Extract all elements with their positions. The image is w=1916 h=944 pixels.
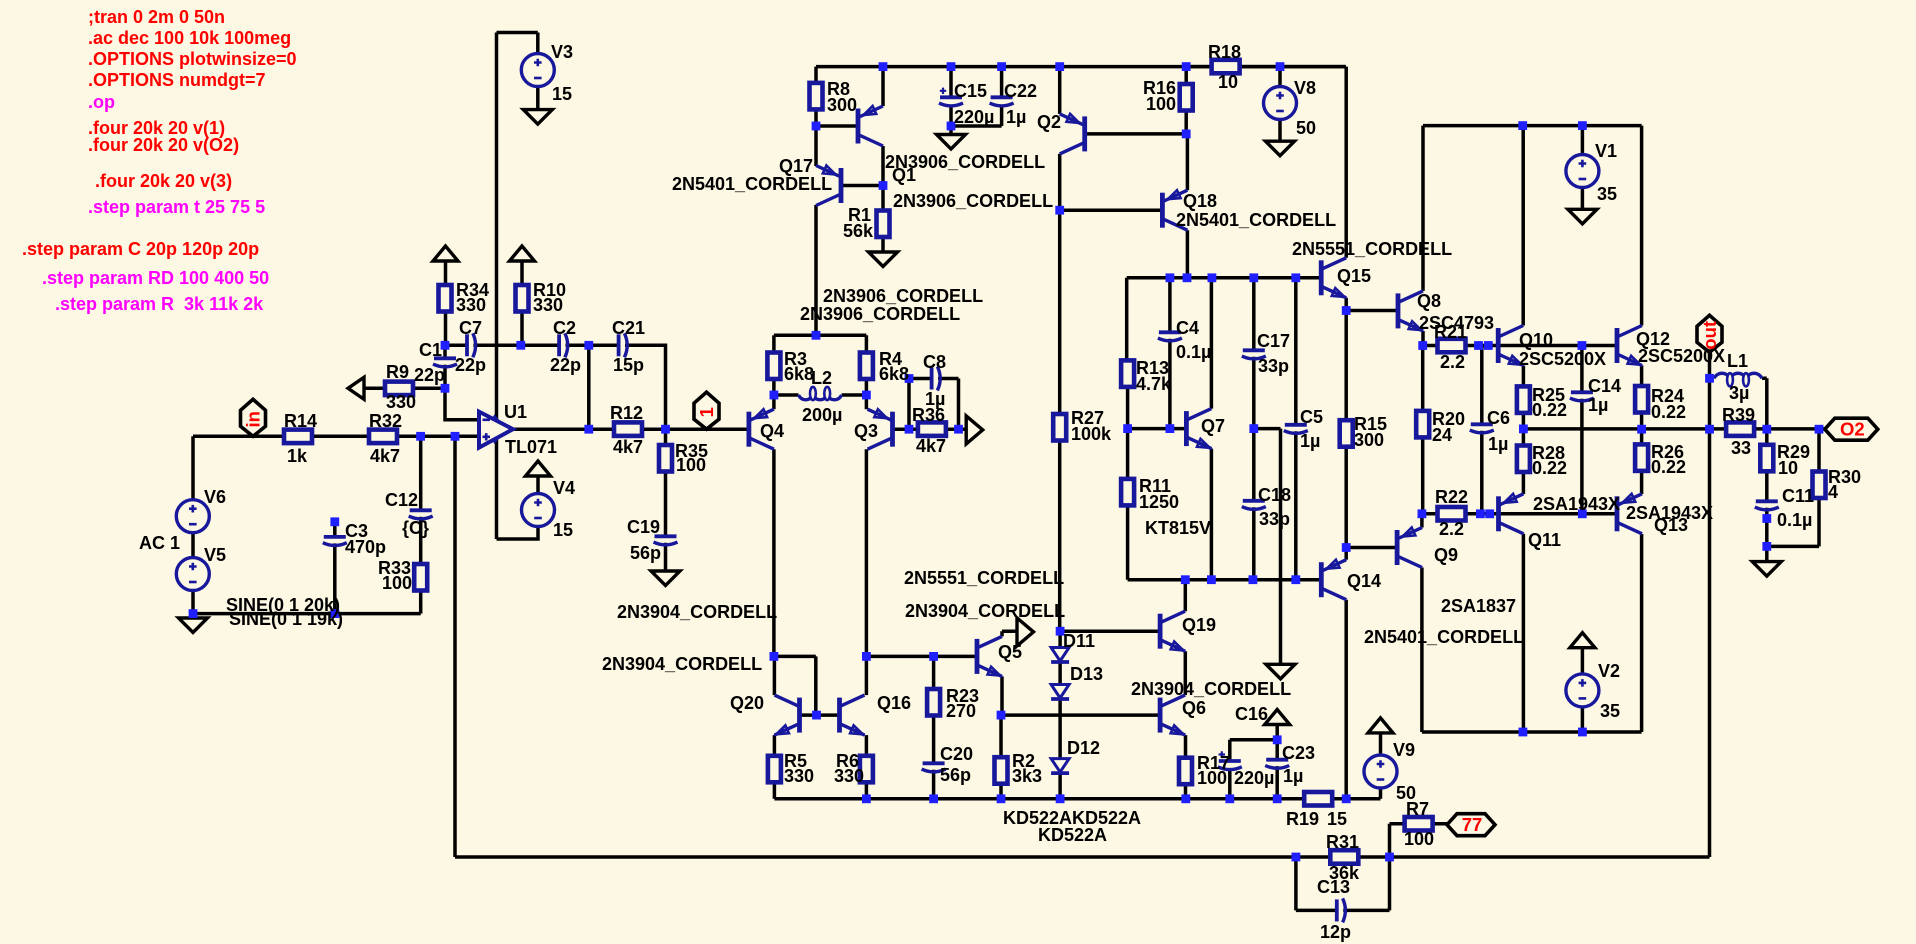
svg-text:2N3904_CORDELL: 2N3904_CORDELL [602, 654, 762, 674]
svg-text:330: 330 [533, 295, 563, 315]
wire Q20 emit [773, 735, 777, 756]
wire output rail [1523, 427, 1824, 431]
svg-text:R32: R32 [369, 411, 402, 431]
svg-text:33p: 33p [1258, 356, 1289, 376]
svg-text:100: 100 [382, 573, 412, 593]
svg-text:300: 300 [827, 95, 857, 115]
wire R36 leads [909, 427, 966, 431]
svg-text:R21: R21 [1434, 322, 1467, 342]
wire C14 bottom [1580, 399, 1584, 514]
wire R20 bottom [1421, 437, 1425, 513]
wire C1 bottom [443, 365, 447, 389]
wire R6 bottom [865, 782, 869, 799]
transistor Q11 [1499, 494, 1524, 534]
wire Q1 emitter up [881, 67, 885, 106]
svg-text:C14: C14 [1588, 376, 1621, 396]
resistor R17 [1179, 758, 1192, 785]
svg-text:22p: 22p [414, 365, 445, 385]
wire R7 row [1390, 822, 1448, 826]
svg-text:Q19: Q19 [1182, 615, 1216, 635]
svg-text:C20: C20 [940, 744, 973, 764]
svg-text:Q2: Q2 [1037, 112, 1061, 132]
svg-text:D11: D11 [1063, 631, 1095, 651]
svg-text:C11: C11 [1782, 486, 1814, 506]
transistor Q16 [840, 695, 865, 735]
svg-text:Q7: Q7 [1201, 416, 1225, 436]
svg-text:Q5: Q5 [998, 642, 1022, 662]
wire V6-V5 [191, 533, 195, 558]
ground C19 [651, 571, 680, 586]
svg-text:V4: V4 [553, 478, 575, 498]
resistor R11 [1121, 479, 1134, 506]
resistor R13 [1121, 360, 1134, 387]
resistor R30 [1813, 472, 1826, 499]
svg-text:15: 15 [553, 520, 573, 540]
resistor R33 [414, 564, 427, 591]
svg-text:3k3: 3k3 [1012, 766, 1042, 786]
wire Q19 coll [1184, 580, 1188, 612]
resistor R25 [1517, 386, 1530, 413]
wire tail row [774, 334, 867, 338]
svg-text:4.7k: 4.7k [1136, 374, 1172, 394]
wire L1 right [1762, 378, 1767, 429]
wire C22 bottom [1000, 106, 1004, 126]
wire Q8 coll [1421, 126, 1425, 291]
wire V6 top [191, 436, 195, 499]
wire D12 bottom [1058, 774, 1062, 799]
capacitor C15 [940, 95, 962, 99]
wire Q10 emit [1522, 366, 1526, 387]
svg-text:KT815V: KT815V [1145, 518, 1211, 538]
wire Q5-Q6 base [1001, 713, 1160, 717]
svg-text:6k8: 6k8 [879, 364, 909, 384]
resistor R6 [860, 756, 873, 783]
wire D11 top [1058, 631, 1062, 647]
svg-text:Q16: Q16 [877, 693, 911, 713]
svg-text:470p: 470p [345, 537, 386, 557]
svg-text:in: in [243, 411, 264, 427]
ground V8 [1266, 141, 1295, 156]
wire C3 bottom [333, 543, 337, 613]
capacitor C22 [991, 95, 1013, 99]
svg-text:50: 50 [1296, 118, 1316, 138]
svg-text:56k: 56k [843, 221, 874, 241]
wire R5 bottom [773, 782, 777, 799]
wire Q16 emit [865, 735, 869, 756]
wire C6 top [1480, 346, 1484, 425]
ground R1 [869, 252, 898, 267]
svg-text:R19: R19 [1286, 809, 1319, 829]
svg-text:22p: 22p [550, 355, 581, 375]
wire C2 node down [587, 345, 591, 429]
wire C22 top [1000, 67, 1004, 98]
svg-text:15: 15 [552, 84, 572, 104]
svg-text:TL071: TL071 [505, 437, 557, 457]
wire vas bus [1127, 276, 1322, 280]
svg-text:2N5551_CORDELL: 2N5551_CORDELL [904, 568, 1064, 588]
wire Q2 coll [1058, 154, 1062, 414]
wire C15 top [949, 67, 953, 98]
svg-text:1k: 1k [287, 446, 308, 466]
resistor R14 [284, 430, 312, 444]
resistor R15 [1340, 420, 1353, 447]
wire R7 down [1388, 824, 1392, 857]
transistor Q6 [1160, 695, 1185, 735]
wire Q17 emitter up [814, 126, 818, 166]
svg-text:0.22: 0.22 [1651, 457, 1686, 477]
wire C7-R10 [473, 344, 559, 348]
wire V9 top [1379, 733, 1383, 755]
svg-text:R9: R9 [386, 362, 409, 382]
wire gnd row [193, 612, 421, 616]
resistor R22 [1438, 507, 1466, 521]
wire R23 top [932, 656, 936, 689]
svg-text:6k8: 6k8 [784, 364, 814, 384]
wire C21 right [625, 345, 666, 429]
svg-text:C19: C19 [627, 517, 660, 537]
resistor R10 [516, 285, 529, 312]
wire C6 bottom [1480, 431, 1484, 514]
wire V4 arrow [536, 476, 540, 494]
svg-text:.four 20k 20 v(3): .four 20k 20 v(3) [95, 171, 232, 191]
wire V3 top [497, 33, 538, 54]
resistor R29 [1760, 445, 1773, 472]
transistor Q19 [1160, 611, 1185, 651]
svg-text:2N5401_CORDELL: 2N5401_CORDELL [1364, 627, 1524, 647]
wire feedback vertical [453, 436, 457, 857]
svg-text:C16: C16 [1235, 704, 1268, 724]
wire R11 bottom [1126, 505, 1130, 579]
wire out flag stem [1708, 352, 1712, 378]
node C3 top [330, 517, 339, 526]
wire O2 stub [1819, 427, 1825, 431]
svg-text:15: 15 [1327, 809, 1347, 829]
svg-text:Q17: Q17 [779, 156, 813, 176]
wire R26 top [1640, 429, 1644, 444]
wire R30 bottom [1767, 498, 1819, 546]
wire C15 gnd row [951, 124, 1002, 128]
wire R8-Q1 [816, 109, 858, 126]
wire top rail 2 [1423, 124, 1642, 128]
wire C8 right [938, 379, 959, 430]
wire gnd stub right [1765, 546, 1769, 561]
wire input row [193, 435, 479, 439]
voltage source V9 [1364, 755, 1397, 788]
svg-text:2N3906_CORDELL: 2N3906_CORDELL [823, 286, 983, 306]
resistor R35 [659, 445, 672, 472]
wire Q19-Q6 [1184, 651, 1188, 695]
capacitor C20 [923, 761, 945, 765]
wire Q8 emit [1421, 331, 1425, 346]
svg-text:300: 300 [1354, 430, 1384, 450]
svg-text:Q6: Q6 [1182, 698, 1206, 718]
inductor L1 [1714, 373, 1762, 386]
wire R23-C20 [932, 716, 936, 764]
wire C18 bottom [1252, 507, 1256, 580]
transistor Q5 [977, 636, 1002, 676]
wire Q3 coll [865, 449, 869, 656]
wire C13 left [1296, 857, 1337, 910]
wire Q5 emit [1000, 676, 1004, 715]
transistor Q3 [868, 409, 893, 449]
wire R4 bottom [865, 379, 869, 395]
svg-text:R39: R39 [1722, 405, 1755, 425]
wire inv input [445, 388, 479, 420]
wire R29-C11 [1765, 471, 1769, 501]
resistor R20 [1416, 411, 1429, 438]
voltage source V3 [521, 54, 554, 87]
power flag C23 [1265, 710, 1290, 725]
wire C3 stub [333, 522, 337, 537]
capacitor C6 [1471, 422, 1493, 426]
svg-text:330: 330 [386, 392, 416, 412]
power flag V2 [1570, 633, 1595, 648]
node in flag [241, 399, 266, 436]
svg-text:C1: C1 [419, 340, 442, 360]
svg-text:C13: C13 [1317, 877, 1350, 897]
svg-text:100k: 100k [1071, 424, 1112, 444]
wire Q17 base [841, 184, 883, 188]
wire C8 left [909, 379, 932, 430]
wire R3 top [772, 335, 776, 352]
svg-text:2SA1837: 2SA1837 [1441, 596, 1516, 616]
svg-text:R36: R36 [912, 405, 945, 425]
svg-text:C4: C4 [1176, 318, 1199, 338]
node out flag [1697, 315, 1722, 352]
wire C5 top [1294, 278, 1298, 425]
wire C1 top [443, 345, 447, 358]
capacitor C21 [617, 334, 621, 356]
svg-text:2N5551_CORDELL: 2N5551_CORDELL [1292, 239, 1452, 259]
svg-text:C15: C15 [954, 81, 987, 101]
diode D12 [1051, 759, 1069, 773]
svg-text:V2: V2 [1598, 661, 1620, 681]
wire R29 top [1765, 429, 1769, 445]
capacitor C7 [465, 334, 469, 356]
wire R13 top [1125, 278, 1129, 361]
wire Q7 emit [1210, 449, 1214, 580]
wire Q13 emit [1640, 471, 1644, 494]
power flag R10 [510, 246, 535, 261]
wire gnd mid [1254, 429, 1281, 665]
wire V2 stem [1581, 648, 1585, 674]
svg-text:35: 35 [1597, 184, 1617, 204]
transistor Q8 [1398, 291, 1423, 331]
wire Q14 coll [1344, 600, 1348, 799]
capacitor C16 [1219, 759, 1241, 763]
resistor R16 [1180, 84, 1193, 111]
capacitor C17 [1243, 348, 1265, 352]
wire Q7 coll [1210, 278, 1214, 409]
capacitor C19 [655, 534, 677, 538]
wire D11-D13 [1058, 663, 1062, 685]
wire R1 gnd [881, 237, 885, 252]
resistor R21 [1438, 339, 1466, 353]
wire Q15 emit [1344, 298, 1348, 311]
wire R34 bottom [444, 312, 448, 346]
ground V1 [1568, 209, 1597, 224]
wire Q17 coll down [814, 205, 818, 335]
svg-text:200µ: 200µ [802, 405, 842, 425]
wire R9 stem [364, 387, 385, 391]
svg-text:Q18: Q18 [1183, 191, 1217, 211]
svg-text:V3: V3 [551, 42, 573, 62]
wire R4 top [865, 335, 869, 352]
wire V1 gnd [1581, 188, 1585, 210]
svg-text:0.1µ: 0.1µ [1777, 510, 1812, 530]
svg-text:4k7: 4k7 [613, 437, 643, 457]
wire R34 top [444, 261, 448, 285]
wire C11 bottom [1765, 508, 1769, 547]
svg-text:Q10: Q10 [1519, 330, 1553, 350]
wire L2 right [842, 393, 867, 397]
svg-text:Q1: Q1 [892, 165, 916, 185]
svg-text:1: 1 [696, 407, 717, 417]
capacitor C1 [434, 356, 456, 360]
wire mirror node [774, 656, 816, 715]
wire Q15 coll [1344, 67, 1348, 258]
capacitor C14 [1571, 390, 1593, 394]
svg-text:330: 330 [456, 295, 486, 315]
wire Q15-Q8 [1346, 309, 1398, 313]
inductor L2 [799, 387, 842, 400]
wire Q19 base [1060, 629, 1160, 633]
svg-text:0.22: 0.22 [1651, 402, 1686, 422]
capacitor C8 [930, 368, 934, 390]
transistor Q15 [1321, 258, 1346, 298]
svg-text:.step param R 3k 11k 2k: .step param R 3k 11k 2k [55, 294, 264, 314]
wire R30 top [1817, 429, 1821, 471]
svg-text:R22: R22 [1435, 487, 1468, 507]
node 77 flag [1447, 814, 1495, 836]
capacitor C13 [1335, 899, 1339, 921]
wire C20 bottom [932, 770, 936, 799]
resistor R7 [1405, 817, 1433, 831]
wire C12 top [419, 436, 423, 510]
wire R19-V9 [1346, 788, 1380, 799]
wire Q16-R23 [866, 655, 977, 659]
svg-text:2N3906_CORDELL: 2N3906_CORDELL [893, 191, 1053, 211]
svg-text:.OPTIONS plotwinsize=0: .OPTIONS plotwinsize=0 [88, 49, 297, 69]
svg-text:1µ: 1µ [1006, 107, 1026, 127]
svg-text:4k7: 4k7 [370, 446, 400, 466]
wire R15 top [1344, 311, 1348, 421]
wire Q7 base row [1128, 427, 1187, 431]
wire R35-C19 [664, 472, 668, 537]
power flag V9 [1368, 718, 1393, 733]
svg-text:330: 330 [834, 766, 864, 786]
svg-text:R31: R31 [1326, 832, 1359, 852]
wire feedback bottom [455, 855, 1710, 859]
transistor Q14 [1321, 560, 1346, 600]
wire V5 bottom [191, 591, 195, 614]
svg-text:C8: C8 [923, 352, 946, 372]
resistor R8 [810, 83, 823, 110]
wire Q5 coll [1002, 631, 1017, 636]
wire C17 top [1252, 278, 1256, 351]
resistor R5 [768, 756, 781, 783]
svg-text:Q11: Q11 [1528, 530, 1561, 550]
op-amp U1 TL071 [479, 412, 513, 448]
wire Q14 emit [1344, 548, 1348, 560]
wire C4 top [1168, 278, 1172, 333]
wire Q3 emit [865, 395, 869, 409]
wire R16 bottom [1184, 111, 1188, 134]
wire Q4 emit [772, 395, 776, 409]
svg-text:V8: V8 [1294, 78, 1316, 98]
capacitor C23 [1266, 758, 1288, 762]
svg-text:330: 330 [784, 766, 814, 786]
wire C4 bottom [1168, 339, 1172, 429]
capacitor C5 [1285, 423, 1307, 427]
wire R3 bottom [772, 379, 776, 395]
svg-text:.op: .op [88, 92, 115, 112]
svg-text:0.22: 0.22 [1532, 458, 1567, 478]
svg-text:C22: C22 [1004, 81, 1037, 101]
transistor Q1 [858, 106, 883, 146]
transistor Q18 [1162, 190, 1187, 230]
wire R13-R11 [1126, 387, 1130, 479]
node junctions [441, 341, 450, 350]
wire gnd stub [949, 126, 953, 135]
svg-text:2N5401_CORDELL: 2N5401_CORDELL [1176, 210, 1336, 230]
svg-text:2SC5200X: 2SC5200X [1519, 349, 1606, 369]
svg-text:56p: 56p [940, 765, 971, 785]
svg-text:77: 77 [1462, 814, 1483, 835]
wire C12-R33 [419, 517, 423, 564]
wire Q9 base [1346, 546, 1397, 550]
svg-text:220µ: 220µ [954, 107, 994, 127]
svg-text:Q20: Q20 [730, 693, 764, 713]
svg-text:.four 20k 20 v(O2): .four 20k 20 v(O2) [88, 135, 239, 155]
svg-text:R14: R14 [284, 411, 317, 431]
wire L1 left stub [1710, 377, 1715, 381]
svg-text:V6: V6 [204, 487, 226, 507]
wire V8 top [1278, 67, 1282, 87]
resistor R26 [1635, 444, 1648, 471]
wire V8 gnd [1278, 120, 1282, 142]
wire neg rail [1422, 730, 1642, 734]
svg-text:C23: C23 [1282, 743, 1315, 763]
capacitor C4 [1159, 330, 1181, 334]
svg-text:Q3: Q3 [854, 421, 878, 441]
wire R20 top [1421, 346, 1425, 411]
voltage source V8 [1264, 87, 1297, 120]
ground [523, 110, 552, 125]
wire R28-Q11 [1522, 472, 1526, 494]
resistor R1 [877, 211, 890, 238]
svg-text:100: 100 [1197, 768, 1227, 788]
capacitor C12 [410, 508, 432, 512]
wire Q3 base [893, 427, 910, 431]
ground out [1752, 562, 1781, 577]
svg-text:33p: 33p [1259, 509, 1290, 529]
svg-text:Q14: Q14 [1347, 571, 1381, 591]
resistor R2 [995, 757, 1008, 784]
transistor Q10 [1498, 326, 1523, 366]
svg-text:.step param RD 100 400 50: .step param RD 100 400 50 [42, 268, 269, 288]
resistor R3 [767, 353, 780, 380]
power flag R34 [433, 246, 458, 261]
svg-text:1µ: 1µ [1488, 434, 1508, 454]
svg-text:L2: L2 [811, 368, 832, 388]
wire Q16 coll [865, 656, 869, 695]
power flag V4 [526, 461, 551, 476]
transistor Q20 [775, 695, 800, 735]
svg-text:C7: C7 [459, 318, 482, 338]
resistor R4 [860, 353, 873, 380]
svg-text:O2: O2 [1840, 419, 1865, 440]
